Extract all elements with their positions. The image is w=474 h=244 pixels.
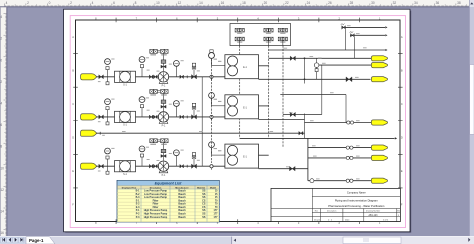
strainer S (115, 111, 136, 126)
wire outlet line 3 (259, 77, 371, 82)
valve pair (149, 115, 157, 119)
vertical scrollbar (469, 0, 474, 236)
svg-text:4: 4 (0, 15, 2, 19)
svg-text:22: 22 (285, 1, 289, 5)
instrument I4 (192, 153, 196, 167)
wire main line (97, 76, 225, 78)
svg-text:E-1: E-1 (243, 66, 247, 69)
svg-text:14: 14 (0, 210, 4, 214)
instrument I3 (174, 150, 180, 166)
line labels (122, 25, 367, 179)
svg-text:4: 4 (6, 1, 8, 5)
wire outlet line 8 (308, 179, 373, 183)
svg-text:8: 8 (135, 1, 137, 5)
tag labels (111, 97, 200, 111)
svg-text:32: 32 (393, 1, 397, 5)
outlet arrow 2 (371, 63, 387, 68)
instrument I2 (139, 97, 145, 117)
svg-text:20: 20 (264, 1, 268, 5)
valve (192, 115, 197, 119)
wire vent line 1 (341, 24, 388, 50)
svg-text:Description: Description (327, 210, 336, 213)
svg-text:E: E (401, 169, 403, 173)
svg-text:4: 4 (92, 1, 94, 5)
svg-text:16: 16 (0, 231, 4, 235)
outlet arrow 7 (371, 178, 387, 183)
svg-text:P-3: P-3 (136, 216, 140, 219)
h scrollbar right button (468, 238, 470, 242)
svg-text:16: 16 (221, 1, 225, 5)
valve manifold pair (150, 139, 168, 150)
instrument I1 (105, 99, 111, 125)
valve (99, 75, 104, 79)
wire cross line 2 (283, 65, 322, 117)
svg-text:AB1-123: AB1-123 (369, 214, 379, 217)
wire cross line (280, 95, 346, 123)
svg-text:Company Name: Company Name (347, 190, 366, 194)
svg-text:S-1: S-1 (123, 173, 127, 176)
wire drain header (240, 137, 398, 139)
wire bypass drop 2 (201, 117, 203, 166)
svg-text:0: 0 (49, 1, 51, 5)
valve pair (149, 75, 157, 79)
svg-text:SS: SS (202, 216, 206, 219)
inlet arrow (81, 114, 97, 120)
svg-text:2: 2 (0, 80, 2, 84)
svg-text:12: 12 (0, 188, 4, 192)
svg-text:Drawing Number: Drawing Number (366, 210, 381, 213)
svg-text:26: 26 (328, 1, 332, 5)
svg-text:6: 6 (113, 1, 115, 5)
svg-text:E: E (72, 169, 74, 173)
wire collector right (307, 138, 309, 180)
wire tick (186, 116, 188, 119)
svg-text:4: 4 (0, 102, 2, 106)
instrument I5 (209, 52, 225, 80)
svg-text:C: C (72, 102, 74, 106)
page nav buttons (0, 237, 26, 244)
svg-text:6: 6 (0, 123, 2, 127)
svg-text:B: B (401, 68, 403, 72)
instrument I2 (139, 146, 145, 166)
svg-text:A: A (72, 35, 74, 39)
filter vessel E (225, 55, 259, 79)
equipment list table (117, 180, 219, 222)
outlet arrow 5 (371, 145, 387, 150)
svg-text:30: 30 (371, 1, 375, 5)
svg-text:Drawn: Drawn (314, 218, 321, 221)
svg-text:38: 38 (457, 1, 461, 5)
svg-text:2: 2 (27, 1, 29, 5)
svg-text:Pharmaceutical Processing - Wa: Pharmaceutical Processing - Water Purifi… (328, 204, 385, 208)
control valve (161, 100, 166, 111)
instrument I2 (139, 57, 145, 77)
valve (192, 75, 197, 79)
left ruler (0, 7, 7, 244)
valve (180, 115, 184, 119)
wire vessel stub (259, 65, 269, 67)
svg-text:S-1: S-1 (123, 84, 127, 87)
wire bypass feed (97, 132, 305, 134)
instrument I1 (105, 148, 111, 174)
strainer S (115, 71, 136, 86)
outlet arrow 6 (371, 155, 387, 160)
svg-text:0: 0 (0, 58, 2, 62)
svg-text:C: C (401, 102, 403, 106)
svg-text:12: 12 (178, 1, 182, 5)
outlet arrow 1 (371, 56, 387, 61)
svg-text:34: 34 (414, 1, 418, 5)
svg-text:D: D (401, 136, 403, 140)
filter vessel E (225, 95, 259, 119)
valve (299, 131, 303, 135)
wire manifold riser col1 (239, 46, 241, 139)
svg-text:10: 10 (0, 166, 4, 170)
svg-text:2: 2 (70, 1, 72, 5)
svg-text:P-1: P-1 (162, 85, 166, 88)
wire branch vertical (304, 57, 306, 138)
instrument I4 (192, 63, 196, 77)
inlet arrow (81, 74, 97, 80)
wire outlet line 5 (308, 146, 373, 149)
bypass feed arrow (81, 130, 97, 136)
instrument I4 (192, 103, 196, 117)
instrument I3 (174, 101, 180, 117)
svg-text:E-1: E-1 (243, 106, 247, 109)
outlet arrow 3 (371, 77, 387, 82)
outlet arrow 4 (371, 120, 387, 125)
page tab (26, 237, 55, 244)
valve (192, 164, 197, 168)
svg-text:B: B (72, 68, 74, 72)
process train 3 (81, 139, 269, 177)
valve (180, 75, 184, 79)
valve (99, 115, 104, 119)
wire outlet line 7 (row 3 out) (259, 166, 308, 171)
title block (271, 188, 400, 221)
pink page margin guide (70, 16, 405, 228)
svg-text:18: 18 (242, 1, 246, 5)
pump P (158, 72, 168, 88)
instrument I5 (209, 93, 225, 121)
svg-text:Bauch: Bauch (178, 216, 186, 219)
valve pair (149, 164, 157, 168)
tag labels (111, 147, 200, 161)
svg-text:8: 8 (0, 145, 2, 149)
pump P (158, 112, 168, 128)
process train 2 (81, 90, 269, 128)
wire bypass drop 1 (201, 77, 203, 117)
svg-text:1 of 1: 1 of 1 (383, 219, 389, 221)
valve manifold box (230, 24, 291, 46)
top ruler (0, 0, 474, 7)
wire tick (186, 165, 188, 168)
svg-text:High Pressure Pump: High Pressure Pump (144, 216, 168, 219)
svg-text:Page-1: Page-1 (29, 238, 44, 243)
svg-text:S-1: S-1 (123, 124, 127, 127)
valve (290, 56, 295, 60)
drawing frame border (72, 16, 403, 225)
svg-text:P-1: P-1 (162, 174, 166, 177)
valve (99, 164, 104, 168)
page with shadow (64, 9, 412, 232)
wire manifold risers (269, 46, 283, 148)
control valve (161, 60, 166, 71)
process train 1 (81, 49, 269, 87)
pump P (158, 161, 168, 177)
svg-text:Equipment List: Equipment List (155, 182, 182, 186)
instrument I5 (209, 142, 225, 170)
svg-text:D: D (72, 136, 74, 140)
svg-text:E-1: E-1 (243, 156, 247, 159)
wire main line (97, 165, 225, 167)
wire outlet line 4 (259, 120, 373, 125)
svg-text:24: 24 (307, 1, 311, 5)
h scrollbar track (232, 237, 474, 244)
wire top header (269, 49, 388, 51)
svg-text:28: 28 (350, 1, 354, 5)
strainer S (115, 161, 136, 176)
svg-text:P-1: P-1 (162, 125, 166, 128)
instrument header top (209, 50, 215, 59)
valve manifold pair (150, 49, 168, 60)
svg-text:36: 36 (436, 1, 440, 5)
inlet arrow (81, 163, 97, 169)
tag labels (111, 57, 200, 71)
valve (180, 164, 184, 168)
wire vent line 2 (350, 32, 388, 59)
control valve (161, 149, 166, 160)
wire outlet line 6 (308, 156, 373, 159)
instrument I1 (105, 59, 111, 85)
svg-text:Rev: Rev (315, 211, 318, 213)
wire main line (97, 116, 225, 118)
svg-text:Sht: Sht (397, 210, 400, 213)
instrument I3 (174, 61, 180, 77)
svg-text:10: 10 (156, 1, 160, 5)
page tab strip (26, 237, 232, 244)
wire vessel stub (259, 105, 269, 107)
wire outlet line 2 (314, 58, 371, 79)
svg-text:A: A (401, 35, 403, 39)
wire outlet line 1 (269, 57, 372, 59)
svg-text:Piping and Instrumentation Dia: Piping and Instrumentation Diagram (335, 198, 379, 202)
svg-text:14: 14 (199, 1, 203, 5)
filter vessel E (225, 144, 259, 168)
svg-text:2: 2 (0, 37, 2, 41)
suction header (211, 59, 213, 163)
wire vessel stub (259, 154, 269, 156)
wire tick (186, 75, 188, 78)
bottom bar (0, 236, 474, 244)
h scrollbar thumb (343, 237, 401, 244)
valve manifold pair (150, 90, 168, 101)
svg-text:177: 177 (214, 216, 219, 219)
